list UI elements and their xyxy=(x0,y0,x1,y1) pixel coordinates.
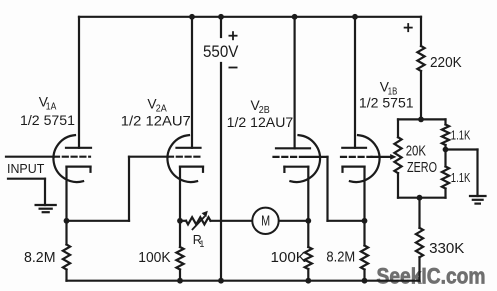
svg-text:100K: 100K xyxy=(138,250,171,266)
svg-text:1.1K: 1.1K xyxy=(451,171,471,185)
svg-text:1/2 5751: 1/2 5751 xyxy=(359,95,414,111)
svg-text:1/2 12AU7: 1/2 12AU7 xyxy=(121,113,191,129)
svg-text:8.2M: 8.2M xyxy=(326,250,355,266)
svg-text:INPUT: INPUT xyxy=(7,162,45,176)
svg-text:1/2 5751: 1/2 5751 xyxy=(20,112,75,128)
svg-text:ZERO: ZERO xyxy=(407,160,437,176)
svg-text:SeekIC.com: SeekIC.com xyxy=(377,264,486,289)
svg-text:1/2 12AU7: 1/2 12AU7 xyxy=(227,114,294,130)
svg-text:M: M xyxy=(261,214,270,230)
svg-text:8.2M: 8.2M xyxy=(24,250,56,266)
svg-text:100K: 100K xyxy=(271,250,307,266)
svg-text:550V: 550V xyxy=(203,43,238,61)
svg-text:330K: 330K xyxy=(429,241,465,257)
svg-text:1A: 1A xyxy=(46,102,57,113)
svg-text:1.1K: 1.1K xyxy=(451,128,471,142)
svg-text:220K: 220K xyxy=(430,55,462,71)
svg-text:1: 1 xyxy=(199,239,204,249)
svg-text:20K: 20K xyxy=(406,143,426,159)
